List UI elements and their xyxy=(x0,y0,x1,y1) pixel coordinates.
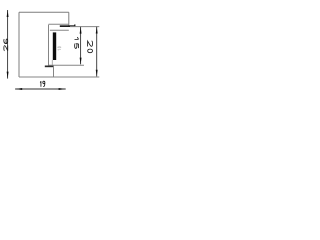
part outline: top edge xyxy=(19,11,69,13)
dim 26: text xyxy=(4,39,8,51)
inner profile: slot bottom line xyxy=(50,29,69,31)
dim 19: dimension line xyxy=(15,88,66,90)
top tab end lip xyxy=(74,25,75,26)
dim 20: bottom arrow xyxy=(96,70,98,77)
dim 26: dimension line xyxy=(7,10,9,79)
foot thin wall (filled dark) xyxy=(45,66,54,68)
dim 15: dimension line xyxy=(80,27,82,65)
tiny faint label 10 xyxy=(58,47,61,51)
dim 26: top arrow xyxy=(7,10,9,17)
dim 19: right arrow xyxy=(59,88,66,90)
inner lower vertical line xyxy=(53,67,55,77)
dim 19: left arrow xyxy=(15,88,22,90)
dim 20: text xyxy=(88,41,93,53)
dim 19: text xyxy=(40,81,45,87)
part outline: left edge xyxy=(18,12,20,77)
dim 20: dimension line xyxy=(96,27,98,77)
dim 15: top arrow xyxy=(80,27,82,34)
step below bar xyxy=(51,60,53,66)
extension line top right xyxy=(70,26,99,28)
part outline: right edge (upper short segment) xyxy=(68,12,70,26)
dim 15: text xyxy=(75,37,79,48)
inner profile: slot top line xyxy=(49,23,69,25)
black wall bar (filled) xyxy=(53,32,56,60)
dim 20: top arrow xyxy=(96,27,98,34)
top tab thin wall (filled dark) xyxy=(60,25,76,27)
dim 26: bottom arrow xyxy=(7,72,9,79)
extension line mid right (15 dim bottom) xyxy=(49,64,84,66)
part outline: bottom edge plus extension line to right xyxy=(19,76,99,78)
inner profile: vertical wall line xyxy=(48,25,50,66)
dim 15: bottom arrow xyxy=(80,58,82,65)
